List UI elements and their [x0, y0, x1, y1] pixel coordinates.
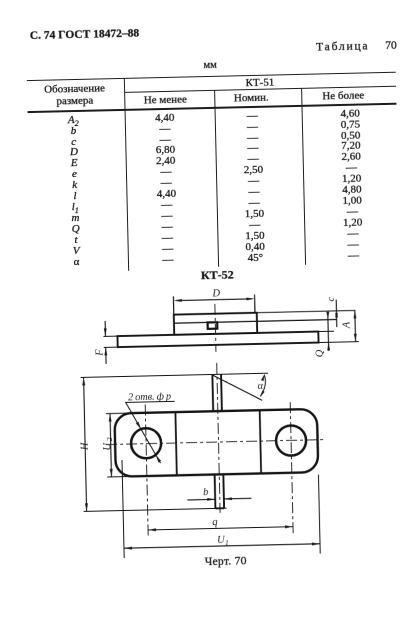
- column header: nominal: [191, 90, 311, 105]
- side view: flange top extension left for F: [103, 335, 117, 337]
- top view: dimension q: [148, 527, 293, 530]
- top view: dimension b arrow lines: [187, 498, 215, 501]
- top view: horizontal centerline: [106, 440, 325, 445]
- rule under KT-51: [124, 86, 396, 93]
- row e: [14, 167, 134, 182]
- vertical separator 3: [301, 88, 306, 265]
- svg-text:2: 2: [105, 437, 114, 441]
- page header: [30, 28, 140, 42]
- svg-text:U: U: [102, 442, 113, 451]
- top view: dimension U2: [110, 414, 111, 477]
- top view: H extension bottom: [84, 508, 227, 511]
- KT-52 label: [157, 267, 277, 285]
- top view: middle section right edge: [260, 410, 261, 473]
- side view: dimension F: [104, 321, 106, 336]
- side view: center lead tab detail: [208, 322, 218, 329]
- top view: bend reference line: [212, 373, 268, 374]
- top view: plate outline: [114, 409, 318, 477]
- top view: dimension U1: [124, 544, 320, 548]
- hole note underline: [125, 401, 174, 402]
- mm label: [203, 60, 217, 71]
- side view: flange top line extended right: [318, 330, 334, 332]
- svg-text:H: H: [80, 441, 91, 451]
- row V: [16, 244, 136, 259]
- top view: U2 extension bottom: [107, 475, 132, 478]
- hole note leader line: [126, 402, 161, 464]
- row l1: [15, 200, 135, 217]
- column header: not more: [283, 88, 403, 103]
- row E: [14, 156, 134, 171]
- row b: [13, 123, 133, 138]
- row m: [15, 211, 135, 226]
- side view: D extension left / cap left edge up: [172, 296, 174, 314]
- side view: dimension D line: [176, 299, 251, 301]
- svg-text:A: A: [341, 321, 352, 329]
- side view: vertical centerline: [215, 304, 216, 352]
- top view: angle arc with arrows: [260, 375, 266, 396]
- drawing caption: [166, 554, 286, 569]
- svg-text:1: 1: [225, 538, 229, 547]
- svg-text:c: c: [326, 296, 337, 301]
- row Q: [16, 222, 136, 237]
- row A2: [13, 112, 133, 129]
- table caption: [316, 39, 397, 53]
- svg-text:Q: Q: [315, 349, 326, 357]
- top view: top lead tab: [211, 374, 214, 411]
- side view: D extension right: [254, 294, 256, 312]
- top view: right hole: [276, 425, 307, 456]
- top view: vertical centerline: [217, 363, 220, 513]
- top view: left hole vertical centerline: [145, 404, 148, 535]
- svg-text:F: F: [94, 349, 105, 357]
- top view: left hole: [131, 428, 162, 459]
- svg-text:D: D: [211, 288, 220, 299]
- side view: dimension c: [335, 300, 338, 327]
- row alpha: [16, 255, 136, 270]
- top view: U1 extension right: [318, 475, 320, 554]
- top view: middle section left edge: [175, 412, 176, 475]
- side view: seating plane line extended right: [319, 341, 359, 344]
- top view: U1 extension left: [122, 460, 124, 558]
- top view: right hole vertical centerline: [290, 402, 293, 533]
- side view: lid line across cap extending right to c dim: [174, 320, 337, 324]
- column header: KT-51: [200, 75, 320, 90]
- vertical separator 1: [124, 78, 130, 271]
- row c: [14, 134, 134, 149]
- top view: bottom lead tab: [214, 475, 217, 509]
- row D: [14, 145, 134, 160]
- svg-text:b: b: [203, 487, 208, 498]
- side view: dimension Q: [327, 312, 330, 351]
- column header: designation: [14, 83, 134, 109]
- side view: cap outline: [174, 313, 257, 335]
- table top rule: [27, 72, 396, 82]
- row k: [15, 178, 135, 193]
- top view: dimension H: [84, 377, 87, 511]
- row l: [15, 189, 135, 204]
- svg-text:q: q: [212, 517, 217, 528]
- side view: cap top line extended right to A dim: [257, 311, 356, 313]
- row t: [16, 233, 136, 248]
- svg-text:α: α: [257, 381, 263, 392]
- vertical separator 2: [214, 90, 219, 267]
- rule under column headers: [28, 102, 397, 112]
- top view: bend diagonal line: [212, 374, 262, 402]
- side view: flange outline: [117, 332, 318, 348]
- column header: not less: [105, 92, 225, 107]
- top view: U2 extension top: [106, 412, 131, 415]
- top view: H extension top: [81, 374, 213, 377]
- side view: flange bottom extension left for F: [104, 346, 118, 348]
- side view: dimension A: [354, 311, 357, 342]
